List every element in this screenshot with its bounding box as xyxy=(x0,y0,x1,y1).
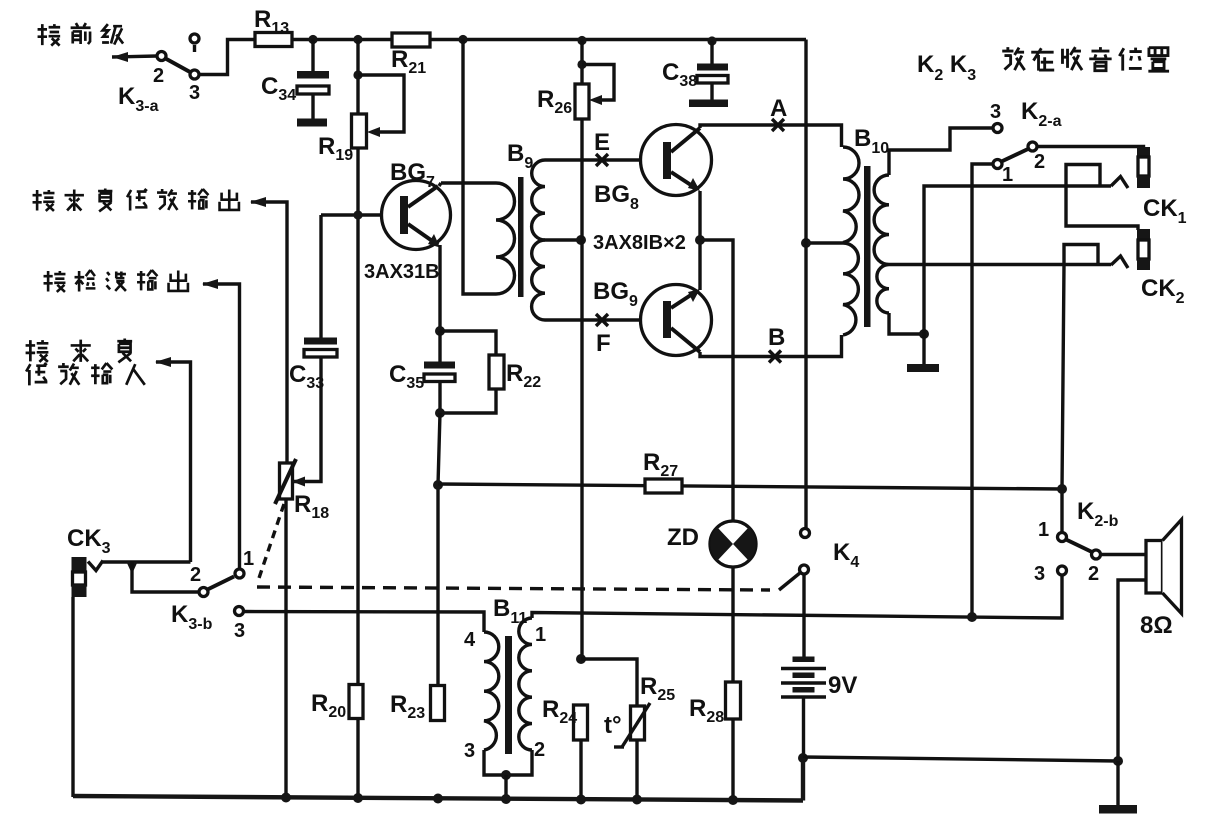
svg-text:B: B xyxy=(768,324,785,351)
resistor R13 xyxy=(254,6,292,47)
wire: speaker return to ground junction xyxy=(1118,580,1146,761)
node: rail/R20 junction xyxy=(353,793,363,803)
wire: B10 secondary top to K2-a contact 3 xyxy=(889,128,992,175)
jack CK1 barrel xyxy=(1137,147,1150,188)
switch K3-a contact 1 (top) xyxy=(190,34,199,52)
wire: R25 top link xyxy=(581,659,637,706)
transistor BG9 xyxy=(641,285,712,356)
svg-text:3AX31B: 3AX31B xyxy=(364,261,440,283)
node: speaker ground junction xyxy=(1113,756,1123,766)
transistor BG8 xyxy=(641,125,712,196)
wire: B10 secondary bottom to ground node xyxy=(889,313,924,334)
wire: B9 center tap xyxy=(545,238,581,241)
switch K2-a contact 3 xyxy=(993,124,1002,133)
svg-text:2: 2 xyxy=(1034,151,1045,173)
text 接检波输出 xyxy=(44,270,188,292)
svg-text:t°: t° xyxy=(604,712,622,739)
jack CK2 barrel xyxy=(1137,229,1150,270)
wire: top supply rail xyxy=(292,38,806,41)
svg-text:3: 3 xyxy=(464,740,475,762)
transformer B10 primary winding upper xyxy=(843,147,859,243)
wire: CK2 break contact down to K2-b contact 1 xyxy=(1062,265,1064,533)
potentiometer R18 xyxy=(275,357,329,522)
text 低放输入 xyxy=(26,363,145,385)
svg-text:3: 3 xyxy=(990,101,1001,123)
crossover mark F xyxy=(596,314,608,326)
wire: K3-b contact 3 to B11 pin 4 xyxy=(244,612,484,633)
node: rail/R26 junction xyxy=(577,36,586,45)
svg-text:4: 4 xyxy=(464,629,476,651)
svg-text:F: F xyxy=(596,330,611,357)
wire: emitter node column down to R23 xyxy=(438,413,440,686)
switch K3-b contact 3 xyxy=(235,607,244,616)
jack CK1 tip spring xyxy=(1111,177,1128,189)
wire: B11 bottom to rail xyxy=(504,775,507,799)
node: C35/R22 bottom junction xyxy=(435,408,445,418)
wire: input lead to K3-a with arrowhead xyxy=(112,52,157,62)
wire: output lead to R18 column with arrowhead xyxy=(250,197,287,463)
wire: K2-a contact 2 to CK1 sleeve xyxy=(1037,147,1144,149)
transformer B9 secondary winding upper xyxy=(532,160,545,240)
text 接 来 复 xyxy=(26,339,133,363)
resistor R24 xyxy=(542,696,588,800)
node: R27 left junction xyxy=(433,480,443,490)
svg-text:E: E xyxy=(594,129,610,156)
node: rail/R25 junction xyxy=(632,795,642,805)
wire: F lead (B9 to BG9 base) xyxy=(545,318,664,321)
wire: rail to R19 xyxy=(356,40,359,115)
wire: lamp to R28 xyxy=(731,567,734,682)
transformer B9 primary winding xyxy=(496,183,515,294)
wire: BG7 collector to B9 primary top xyxy=(439,183,496,186)
svg-text:2: 2 xyxy=(190,564,201,586)
transformer B11 right winding xyxy=(519,618,532,750)
svg-text:A: A xyxy=(770,95,787,122)
svg-text:3: 3 xyxy=(1034,563,1045,585)
crossover mark E xyxy=(596,154,608,166)
node: rail/R24 junction xyxy=(576,795,586,805)
ground bar (C38) xyxy=(689,100,728,108)
switch K4 contact top xyxy=(801,529,810,538)
switch K3-a blade xyxy=(166,59,191,73)
node: CK3 tip branch junction xyxy=(127,562,138,574)
svg-text:2: 2 xyxy=(1088,563,1099,585)
battery 9V xyxy=(781,657,826,759)
node: base/R19-column junction xyxy=(353,148,362,799)
jack CK2 tip spring xyxy=(1111,256,1128,268)
node: rail/C38 junction xyxy=(707,36,716,45)
transformer B9 core xyxy=(518,177,524,297)
transformer B10 core xyxy=(864,166,871,327)
switch K2-a contact 1 xyxy=(993,160,1002,169)
node: K2-a column junction on row xyxy=(967,612,977,622)
svg-text:2: 2 xyxy=(534,739,545,761)
svg-text:3AX8IB×2: 3AX8IB×2 xyxy=(593,232,686,254)
node: R26 wiper tie junction xyxy=(577,60,586,69)
switch K3-b blade xyxy=(208,577,235,590)
node: rail/R19 junction xyxy=(353,35,362,44)
node: B11 bottom junction xyxy=(501,770,511,780)
capacitor C34 xyxy=(261,40,329,120)
wire: CK1 break contact to CK2 sleeve xyxy=(1066,186,1138,230)
wire: BG9 collector to B10 primary bottom xyxy=(700,335,842,357)
node: rail/R23 junction xyxy=(433,794,443,804)
resistor R23 xyxy=(390,686,445,723)
wire: emitters junction to lamp column xyxy=(695,191,733,521)
wire: B11 pin 1 to K2-b contact 3 row xyxy=(532,575,1062,618)
svg-text:ZD: ZD xyxy=(667,524,699,551)
node: center tap junction xyxy=(576,235,586,245)
thermistor R25 xyxy=(614,673,675,800)
jack CK3 tip spring and line xyxy=(88,561,191,571)
switch K4 blade xyxy=(779,573,801,591)
node: R19 wiper tie junction xyxy=(353,70,362,79)
wire: R26/R24 long column xyxy=(580,41,583,660)
wire: B9 primary bottom return to rail xyxy=(463,40,496,295)
svg-text:1: 1 xyxy=(1038,519,1049,541)
svg-text:2: 2 xyxy=(153,65,164,87)
mechanical link dashed line xyxy=(257,504,770,590)
ground bar (C34) xyxy=(297,119,327,127)
wire: K2-a contact 1 to lower row xyxy=(972,164,993,617)
node: R27 right junction xyxy=(1057,484,1067,494)
text K2 K3 radio position note xyxy=(917,47,1169,84)
switch K2-b blade xyxy=(1066,540,1092,553)
node: R24/R25 top junction xyxy=(576,654,586,664)
svg-text:1: 1 xyxy=(243,548,254,570)
wire: ground stub (B10) xyxy=(922,334,925,365)
crossover mark B xyxy=(769,351,781,363)
svg-text:1: 1 xyxy=(1002,164,1013,186)
switch K2-a blade xyxy=(1002,149,1029,162)
switch K2-b contact 1 xyxy=(1058,533,1067,542)
text 接前级 xyxy=(38,23,124,46)
wire: BG8 collector to B10 primary top xyxy=(700,125,842,147)
crossover mark A xyxy=(772,119,784,131)
node: secondary/ground junction xyxy=(919,329,929,339)
wire: bottom ground rail xyxy=(73,758,803,801)
switch K2-b contact 3 xyxy=(1058,566,1067,575)
wire: R18 bottom column to rail xyxy=(284,499,287,797)
switch K3-a contact 3 xyxy=(190,70,199,79)
jack CK3 barrel xyxy=(72,557,87,597)
wire: R27 row xyxy=(438,484,1062,489)
resistor R28 xyxy=(689,682,741,800)
capacitor C35 xyxy=(389,331,455,413)
wire: ground stub (speaker) xyxy=(1116,761,1119,806)
svg-text:8Ω: 8Ω xyxy=(1140,612,1173,639)
node: rail/B11 junction xyxy=(501,794,511,804)
node: emitter/C35/R22 top junction xyxy=(435,326,445,336)
resistor R20 xyxy=(311,685,363,722)
switch K3-b contact 1 xyxy=(235,569,244,578)
wire: detector lead to K3-b contact 1 with arrowhead xyxy=(202,279,240,568)
wire: CK2 tip line from B10 secondary tap xyxy=(889,263,1111,266)
transformer B10 secondary winding xyxy=(874,175,889,313)
resistor R22 xyxy=(440,355,541,413)
switch K2-a contact 2 xyxy=(1028,142,1037,151)
wire: K4 to battery xyxy=(802,574,805,657)
ground bar (speaker) xyxy=(1099,805,1137,814)
svg-text:3: 3 xyxy=(189,82,200,104)
svg-text:1: 1 xyxy=(535,624,546,646)
svg-text:3: 3 xyxy=(234,620,245,642)
transistor BG7 xyxy=(382,181,451,250)
transformer B10 primary winding lower xyxy=(843,243,858,335)
transformer B11 left winding xyxy=(484,632,499,750)
switch K3-b contact 2 xyxy=(199,588,208,597)
svg-text:9V: 9V xyxy=(828,672,857,699)
wire: K3-a contact 3 to R13 xyxy=(200,40,257,75)
wire: K2-b contact 2 to speaker xyxy=(1101,553,1147,556)
wire: BG7 emitter column xyxy=(438,245,441,331)
resistor R19 with wiper loop xyxy=(318,75,404,164)
resistor R27 xyxy=(643,449,682,493)
ground bar (B10 secondary) xyxy=(907,364,939,372)
switch K2-b contact 2 xyxy=(1092,550,1101,559)
capacitor C38 xyxy=(662,41,728,100)
node: B10 tap junction xyxy=(801,238,811,248)
resistor R26 with wiper loop xyxy=(537,65,614,120)
transformer B11 core xyxy=(505,636,512,754)
capacitor C33 xyxy=(289,215,337,392)
wire: branch to K3-b contact 2 xyxy=(132,562,199,592)
node: rail/B9-return junction xyxy=(458,35,467,44)
wire: CK1 tip line from ground column xyxy=(924,186,1111,334)
wire: C35-R22 top link xyxy=(440,331,496,355)
node: rail/R18 junction xyxy=(281,793,291,803)
wire: B11 pin 3 to bottom junction xyxy=(484,750,506,775)
wire: CK3 sleeve column to rail xyxy=(71,597,74,797)
resistor R21 xyxy=(391,33,430,77)
switch K3-a contact 2 xyxy=(157,52,166,61)
node: battery bottom junction xyxy=(798,753,808,763)
wire: BG7 base wire xyxy=(321,213,401,216)
jack CK1 break contact xyxy=(1066,165,1100,187)
wire: B11 pin 2 to bottom junction xyxy=(506,750,532,775)
lamp ZD xyxy=(710,521,756,567)
wire: supply column (rail corner to K4) xyxy=(804,40,807,534)
wire: E lead (B9 to BG8 base) xyxy=(545,158,664,161)
speaker xyxy=(1146,520,1182,614)
transformer B9 secondary winding lower xyxy=(532,240,545,320)
node: rail/R28 junction xyxy=(728,795,738,805)
wire: input lead to CK3 tip column with arrowhead xyxy=(155,357,191,562)
switch K4 contact bottom xyxy=(800,565,809,574)
jack CK2 break contact xyxy=(1064,245,1098,266)
node: rail/C34 junction xyxy=(308,35,317,44)
wire: battery to speaker ground run xyxy=(803,757,1118,761)
text 接来复低放输出 xyxy=(33,189,239,212)
wire: B10 center tap to supply column xyxy=(806,241,843,244)
